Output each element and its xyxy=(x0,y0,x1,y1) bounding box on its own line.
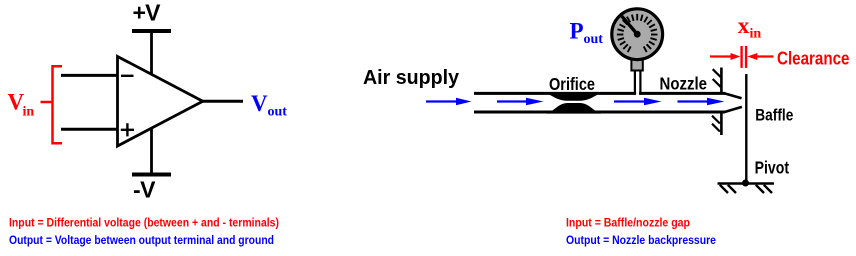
svg-text:P: P xyxy=(570,19,584,44)
orifice restriction upper lip xyxy=(544,92,604,101)
label xin xyxy=(738,13,762,42)
dimension tick nozzle plane xyxy=(740,46,742,68)
dimension arrow right xyxy=(747,53,773,60)
pivot ground hatching xyxy=(720,185,772,193)
pipe wall top xyxy=(474,92,726,95)
svg-text:V: V xyxy=(251,91,268,116)
supply rail -V bar xyxy=(132,173,171,177)
svg-text:Pivot: Pivot xyxy=(755,158,790,178)
baffle plate B1 xyxy=(745,74,747,181)
wire non-inverting input xyxy=(61,128,118,131)
op-amp U1 xyxy=(118,57,203,147)
mounting wall lower xyxy=(720,112,723,136)
pressure gauge P1 dial ticks xyxy=(617,14,658,52)
wire inverting input xyxy=(61,74,118,77)
label Vin xyxy=(8,90,35,120)
svg-text:Baffle: Baffle xyxy=(755,105,793,124)
flow arrow F1 xyxy=(426,98,472,106)
op-amp U1 inverting input marker (-) xyxy=(121,75,134,77)
flow arrow F4 xyxy=(678,98,725,106)
svg-text:out: out xyxy=(268,105,288,120)
svg-text:out: out xyxy=(584,32,604,47)
pressure gauge P1 needle xyxy=(622,16,637,34)
svg-text:Clearance: Clearance xyxy=(777,48,850,68)
mounting wall lower hatching xyxy=(712,116,720,132)
supply rail +V bar xyxy=(132,29,171,33)
flow arrow F2 xyxy=(497,98,544,106)
dimension arrow left xyxy=(710,53,740,60)
svg-text:Output = Voltage between outpu: Output = Voltage between output terminal… xyxy=(9,235,274,247)
svg-text:+V: +V xyxy=(133,0,162,26)
pivot joint xyxy=(742,180,749,187)
label Pout xyxy=(570,19,604,48)
flow arrow F3 xyxy=(614,98,662,106)
pivot ground line xyxy=(718,182,775,185)
dimension tick baffle plane xyxy=(745,46,747,68)
gauge tap tube white channel xyxy=(636,71,639,96)
pipe wall bottom xyxy=(474,111,725,114)
svg-text:Orifice: Orifice xyxy=(549,74,595,94)
wire +V supply xyxy=(150,30,153,75)
node Vin input bracket xyxy=(41,66,63,143)
wire -V supply xyxy=(150,128,153,174)
gauge tap tube walls xyxy=(635,71,641,95)
orifice restriction lower lip xyxy=(547,103,602,114)
nozzle lower taper xyxy=(725,107,742,112)
mounting wall upper xyxy=(720,68,723,94)
pressure gauge P1 stem xyxy=(631,59,642,71)
pressure gauge P1 body xyxy=(612,9,663,60)
label Vout xyxy=(251,91,287,120)
nozzle upper taper xyxy=(725,93,742,98)
svg-text:Input = Baffle/nozzle gap: Input = Baffle/nozzle gap xyxy=(566,217,690,229)
op-amp U1 non-inverting input marker (+) xyxy=(121,123,134,136)
svg-text:Output = Nozzle backpressure: Output = Nozzle backpressure xyxy=(566,235,716,247)
svg-text:-V: -V xyxy=(133,177,156,203)
wire output xyxy=(202,100,243,103)
pressure gauge P1 hub xyxy=(634,31,641,38)
svg-text:Nozzle: Nozzle xyxy=(660,73,708,93)
svg-text:Air supply: Air supply xyxy=(363,67,460,89)
svg-text:Input = Differential voltage (: Input = Differential voltage (between + … xyxy=(9,217,279,229)
svg-text:in: in xyxy=(750,27,762,42)
svg-text:in: in xyxy=(23,105,35,120)
svg-text:x: x xyxy=(738,13,750,38)
mounting wall upper hatching xyxy=(713,69,721,87)
